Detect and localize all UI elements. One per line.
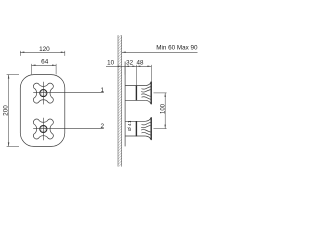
dimension 120 bbox=[20, 46, 65, 56]
plate (side view line) bbox=[124, 62, 126, 147]
dimension Min 60 Max 90 bbox=[122, 44, 198, 53]
dimension 64 bbox=[32, 58, 57, 74]
dimension 200 (vertical, left) bbox=[2, 75, 19, 147]
handle 2 (front view cross knob) bbox=[33, 118, 53, 141]
dimension 100 (vertical, right) bbox=[154, 93, 167, 129]
valve 1 (side view) bbox=[125, 82, 151, 104]
dimensions 10 32 48 bbox=[106, 60, 151, 86]
svg-text:64: 64 bbox=[41, 58, 49, 65]
plate (front view) bbox=[20, 75, 65, 147]
wall (hatched, side view) bbox=[118, 35, 122, 166]
leader to label 1 bbox=[33, 91, 104, 93]
svg-text:Min 60 Max 90: Min 60 Max 90 bbox=[156, 44, 198, 51]
svg-text:100: 100 bbox=[160, 103, 166, 114]
svg-text:Ø 41: Ø 41 bbox=[127, 120, 133, 131]
svg-text:10: 10 bbox=[107, 60, 114, 67]
svg-text:32: 32 bbox=[126, 60, 133, 67]
svg-text:1: 1 bbox=[101, 87, 105, 94]
handle 1 (front view cross knob) bbox=[33, 82, 53, 105]
svg-text:48: 48 bbox=[137, 60, 144, 67]
valve 2 (side view) bbox=[125, 118, 151, 140]
svg-text:2: 2 bbox=[101, 123, 105, 130]
leader to label 2 bbox=[33, 127, 104, 129]
